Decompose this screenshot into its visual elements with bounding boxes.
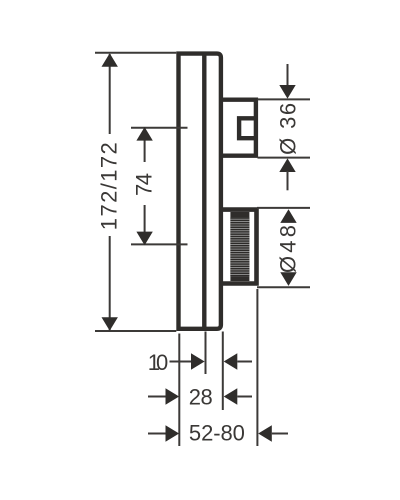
arrow right (166, 388, 180, 404)
arrow up (102, 53, 118, 67)
arrow up to bottom ext (279, 158, 295, 172)
knurl block (230, 212, 249, 281)
dimension line (broken for text) (109, 54, 111, 134)
tail left (148, 433, 166, 435)
bottom extension line (95, 330, 176, 332)
arrow down (102, 317, 118, 331)
tail right (237, 396, 252, 398)
bottom extension line (258, 157, 311, 159)
top extension line (95, 52, 176, 54)
handle Ø48 outline (221, 210, 257, 284)
svg-text:Ø48: Ø48 (276, 225, 301, 273)
arrow down (inside) (280, 272, 296, 286)
arrow left (258, 425, 272, 441)
lower leader line (287, 171, 289, 190)
plate middle vertical line (202, 54, 206, 329)
dim line segments (144, 129, 146, 163)
arrow up (inside) (280, 209, 296, 223)
tail right (272, 433, 288, 435)
ext B: plate middle line (205, 332, 207, 375)
ext A: plate back face (178, 334, 180, 447)
ext C: plate front face (222, 332, 224, 411)
arrow left (224, 353, 238, 369)
svg-text:10: 10 (148, 350, 169, 375)
top tick extension (131, 127, 188, 129)
arrow left (224, 388, 238, 404)
svg-text:52-80: 52-80 (189, 420, 245, 445)
arrow down to top ext (279, 85, 295, 99)
arrow right (191, 353, 205, 369)
protrusion Ø36 (stop handle body) (221, 100, 256, 156)
bottom extension line (257, 286, 310, 288)
tail right (237, 361, 252, 363)
svg-text:Ø 36: Ø 36 (276, 103, 301, 155)
svg-text:28: 28 (189, 384, 213, 409)
plate outer rectangle (side view, rounded right corners) (179, 54, 221, 329)
arrow down (136, 232, 152, 246)
upper leader line (287, 64, 289, 88)
arrow right (166, 425, 180, 441)
bottom tick extension (131, 243, 188, 245)
svg-text:172/172: 172/172 (97, 142, 122, 230)
svg-text:74: 74 (132, 173, 157, 196)
tail left (148, 396, 166, 398)
tail left (170, 361, 192, 363)
arrow up (136, 127, 152, 141)
top extension line (257, 207, 310, 209)
top extension line (258, 98, 311, 100)
ext D: handle front face (256, 289, 258, 446)
clip square inside protrusion (239, 118, 256, 138)
